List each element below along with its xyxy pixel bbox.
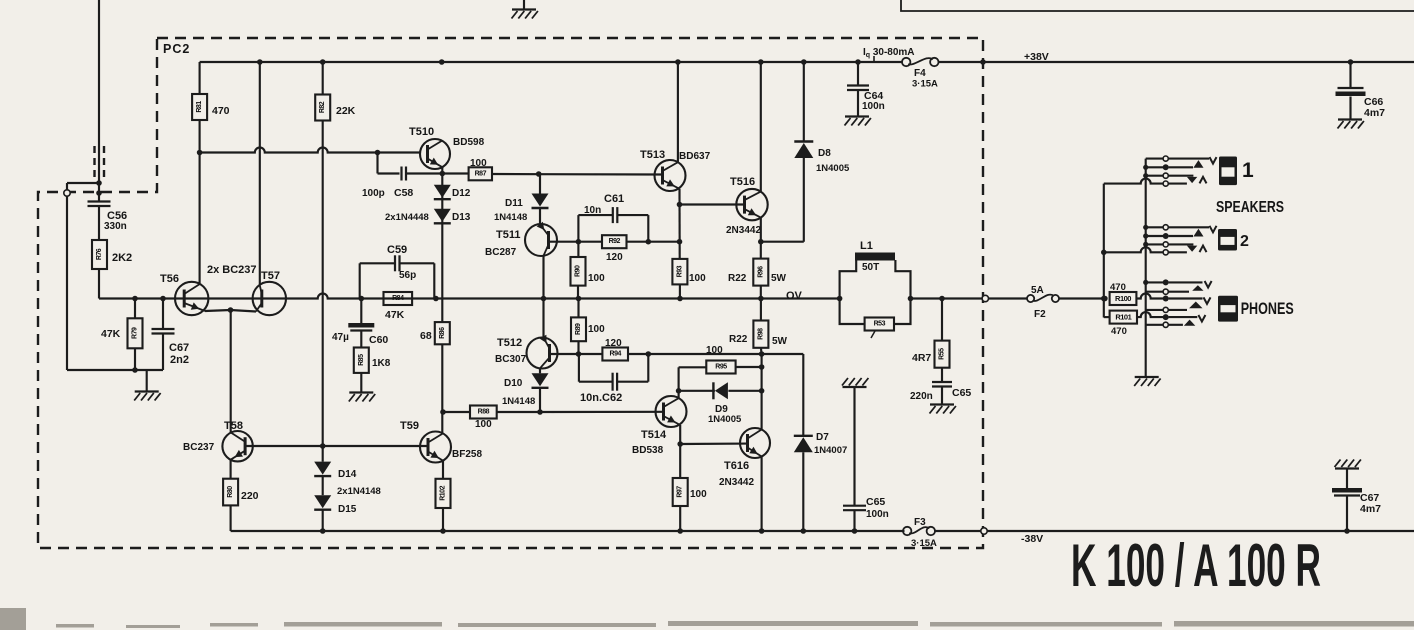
wire ground stem input (146, 370, 148, 391)
node rail T616 (759, 528, 765, 534)
node rail R102 (440, 528, 446, 534)
svg-text:10n.C62: 10n.C62 (580, 392, 622, 404)
node output T616 collector (759, 351, 765, 357)
capacitor C62 10n (611, 373, 613, 391)
node 47K tap (132, 296, 138, 302)
speakers jack 1 (1146, 158, 1163, 160)
wire T516 emitter (760, 218, 762, 259)
wire R53 left path (840, 299, 865, 325)
ground C67b inverted (1335, 467, 1359, 469)
svg-text:100: 100 (689, 273, 706, 284)
svg-text:4m7: 4m7 (1364, 107, 1385, 119)
svg-text:R22: R22 (729, 334, 748, 345)
node D11 tap (536, 171, 542, 177)
svg-text:R100: R100 (1115, 294, 1131, 303)
svg-text:C65: C65 (866, 496, 885, 508)
svg-text:R84: R84 (392, 295, 404, 302)
svg-text:68: 68 (420, 330, 432, 342)
wire C56 to R76 (98, 206, 100, 240)
scan edge band (0, 608, 26, 630)
node D10 R88 (537, 409, 543, 415)
svg-text:4R7: 4R7 (912, 352, 931, 364)
svg-text:100n: 100n (862, 101, 885, 112)
diode D13 (434, 209, 451, 222)
node T59 collector R88 (440, 409, 446, 415)
svg-text:R96: R96 (757, 266, 764, 278)
svg-text:1: 1 (1242, 159, 1254, 182)
node emitter R87 (440, 171, 446, 177)
wire T511 emitter to 0V (542, 256, 544, 299)
node C60 tap (359, 296, 365, 302)
resistor R102 (436, 479, 451, 508)
wire R22b bottom (760, 348, 763, 354)
node C58 tap (375, 150, 381, 156)
transistor T513 (655, 160, 686, 191)
node T58 T59 base chain (320, 443, 326, 449)
wire T57 collector (259, 62, 261, 285)
phones jack rowA (1143, 280, 1148, 285)
capacitor C66 4m7 (1338, 87, 1364, 89)
fuse F4 (902, 58, 910, 66)
svg-text:C61: C61 (604, 193, 624, 205)
node rail R97 (677, 528, 683, 534)
wire T58-T59 base line (245, 445, 428, 447)
svg-text:2: 2 (1240, 233, 1249, 250)
wire R53 right path (894, 299, 911, 325)
shield dashed left (93, 146, 95, 179)
svg-text:T59: T59 (400, 420, 419, 432)
svg-text:100: 100 (690, 489, 707, 500)
svg-text:R22: R22 (728, 273, 747, 284)
ground C60 R85 (349, 391, 373, 393)
wire 47K to bottom (134, 348, 136, 370)
svg-text:2x1N4148: 2x1N4148 (337, 486, 381, 497)
resistor R76 2K2 (92, 240, 107, 269)
wire T512 base line (550, 353, 603, 355)
ground input network (135, 390, 159, 392)
wire R95 to collector node (736, 366, 762, 368)
capacitor C67b 4m7 (1332, 488, 1362, 493)
wire D9 line right (728, 390, 761, 392)
svg-text:R94: R94 (610, 351, 622, 358)
wire R95 line (679, 366, 707, 368)
node L1 left (837, 296, 843, 302)
node hot 0V (1101, 296, 1107, 302)
phones jack rowF (1146, 324, 1163, 326)
diode D7 (794, 437, 813, 452)
node rail C66 (1348, 59, 1354, 65)
wire C67b to rail (1346, 496, 1348, 532)
wire R76 to base line (98, 269, 100, 299)
wire 47K branch (134, 299, 136, 319)
wire C67b stem (1346, 469, 1348, 490)
node D9 left (676, 388, 682, 394)
capacitor C58 100p (400, 167, 402, 181)
svg-text:47µ: 47µ (332, 332, 349, 343)
wire R81 to T56 collector (199, 120, 201, 283)
node T511-T512 emitters (541, 296, 547, 302)
svg-text:C59: C59 (387, 244, 407, 256)
svg-text:120: 120 (605, 338, 622, 349)
svg-text:BD637: BD637 (679, 151, 711, 162)
wire R86 to T59 (441, 344, 443, 433)
node rail T57 (257, 59, 263, 65)
wire C58 branch down (376, 153, 378, 174)
svg-text:220: 220 (241, 490, 259, 502)
svg-text:T516: T516 (730, 176, 755, 188)
svg-text:BD538: BD538 (632, 445, 664, 456)
svg-text:T57: T57 (261, 270, 280, 282)
wire D15 to rail (322, 510, 324, 531)
wire C59 top left (360, 262, 395, 264)
wire C62 bottom left (579, 381, 613, 383)
wire input bottom (67, 369, 163, 371)
wire C65 to ground (941, 387, 943, 405)
resistor R93 100 (672, 259, 687, 285)
wire R22 to 0V (760, 286, 762, 299)
wire -38V rail left (231, 530, 905, 532)
svg-text:F2: F2 (1034, 309, 1046, 320)
resistor R55 4R7 (935, 341, 950, 368)
svg-text:2n2: 2n2 (170, 354, 189, 366)
node R93 bottom (677, 296, 683, 302)
phones connector icon (1218, 296, 1238, 322)
svg-text:47K: 47K (101, 328, 121, 340)
svg-text:D15: D15 (338, 504, 357, 515)
svg-text:R92: R92 (609, 238, 621, 245)
wire C67 branch (162, 299, 164, 330)
svg-text:F3: F3 (914, 517, 926, 528)
transistor T58 (222, 431, 252, 461)
wire R90 bottom (577, 286, 579, 299)
wire R89 top (577, 299, 579, 318)
wire T511 base line (549, 241, 603, 243)
wire T58 emitter (230, 460, 232, 479)
wire C61 right down (647, 215, 649, 242)
svg-text:R102: R102 (440, 485, 447, 500)
transistor T514 (656, 396, 687, 427)
inductor L1 (855, 253, 895, 261)
capacitor C64 100n (847, 84, 869, 86)
svg-text:L1: L1 (860, 240, 873, 252)
ground C65b inverted (843, 386, 867, 388)
node hot speaker2 (1101, 250, 1107, 256)
wire T514 collector (678, 367, 680, 398)
svg-text:OV: OV (786, 290, 803, 302)
wire D7 to rail (802, 452, 804, 531)
svg-text:R93: R93 (676, 265, 683, 277)
node T513 emitter line (677, 239, 683, 245)
wire D14 D15 (322, 477, 324, 496)
speakers jack 2 (1143, 225, 1148, 230)
svg-text:Iq 30-80mA: Iq 30-80mA (863, 47, 915, 59)
node R22 output (758, 296, 764, 302)
transistor T56 (175, 282, 208, 315)
svg-text:R81: R81 (196, 101, 203, 113)
node 47K bottom (132, 367, 138, 373)
wire emitter to R87 (442, 172, 468, 174)
wire 0V to F2 (989, 297, 1028, 299)
wire shield tap (67, 182, 99, 184)
resistor R79 47K (128, 318, 143, 348)
node rail D8 (801, 59, 807, 65)
wire 22K down chain (322, 121, 324, 462)
ground phones (1135, 376, 1159, 378)
transistor T57 (253, 282, 286, 315)
svg-text:T514: T514 (641, 429, 667, 441)
node diff emitters (228, 307, 234, 313)
wire R94 to output node (628, 353, 803, 355)
svg-text:K 100 / A 100 R: K 100 / A 100 R (1071, 532, 1321, 599)
wire C59 right down (433, 263, 435, 298)
wire C62 bottom right (617, 381, 648, 383)
wire C66 to ground (1349, 97, 1351, 120)
svg-text:R87: R87 (475, 170, 487, 177)
resistor R88 100 (470, 406, 497, 419)
wire L1 down path (895, 260, 910, 299)
fuse F2 (1027, 295, 1034, 302)
resistor R96 R22 5W (753, 259, 768, 286)
wire C67 to bottom (162, 334, 164, 371)
wire D10 to R88 line (539, 388, 541, 412)
svg-text:100n: 100n (866, 509, 889, 520)
svg-text:220n: 220n (910, 391, 933, 402)
node C67 tap (160, 296, 166, 302)
svg-text:2N3442: 2N3442 (719, 477, 754, 488)
wire +38V rail right (938, 61, 1414, 63)
wire F2 to jacks (1059, 297, 1105, 299)
svg-text:1K8: 1K8 (372, 358, 391, 369)
svg-text:470: 470 (212, 105, 230, 117)
wire C60 to R85 (360, 331, 362, 348)
svg-text:4m7: 4m7 (1360, 503, 1381, 515)
wire C62 right up (647, 354, 649, 382)
svg-text:1N4005: 1N4005 (816, 163, 850, 174)
node R95 right (759, 364, 765, 370)
node C59 right (433, 296, 439, 302)
svg-text:D7: D7 (816, 432, 829, 443)
transistor T511 (525, 224, 557, 256)
wire T514 emitter (679, 425, 681, 478)
wire T513 emitter chain (678, 189, 680, 259)
svg-text:D11: D11 (505, 198, 523, 209)
svg-text:R89: R89 (575, 323, 582, 335)
svg-text:+38V: +38V (1024, 51, 1049, 63)
svg-text:2N3442: 2N3442 (726, 225, 761, 236)
svg-text:T616: T616 (724, 460, 749, 472)
node T616 base tap (677, 441, 683, 447)
wire C66 stem (1349, 62, 1351, 88)
wire +38V rail left (200, 61, 903, 63)
svg-text:R53: R53 (874, 321, 886, 328)
ground C66 (1338, 118, 1362, 120)
svg-text:330n: 330n (104, 221, 127, 232)
transistor T616 (740, 428, 770, 458)
wire input vertical (98, 0, 100, 202)
wire R89 bottom (577, 341, 579, 354)
wire emitters to T58 (230, 310, 232, 433)
svg-text:T58: T58 (224, 420, 243, 432)
wire C61 top left (578, 214, 612, 216)
node input on dashed (96, 190, 102, 196)
svg-text:100p: 100p (362, 188, 385, 199)
diode D8 (794, 143, 813, 158)
wire T512 emitter (539, 368, 541, 373)
svg-text:50T: 50T (862, 262, 879, 273)
svg-text:C58: C58 (394, 187, 413, 199)
wire bias line (200, 148, 421, 153)
node D9 right (759, 388, 765, 394)
svg-text:5W: 5W (771, 273, 787, 284)
wire R88 to D10 node (497, 411, 540, 413)
svg-text:C65: C65 (952, 387, 971, 399)
resistor R84 47K (384, 292, 413, 305)
wire R93 to 0V (679, 284, 681, 298)
node R81 bias line (197, 150, 203, 156)
connector 0V dashed edge (982, 295, 988, 301)
wire R87 to T513 base (492, 173, 662, 176)
capacitor C65 220n (932, 381, 952, 383)
diode D9 (715, 382, 728, 399)
svg-text:R86: R86 (439, 327, 446, 339)
wire C64 to ground (857, 91, 859, 117)
svg-text:D13: D13 (452, 212, 471, 223)
wire jack sleeve vertical (1145, 159, 1147, 377)
svg-text:470: 470 (1111, 326, 1127, 337)
wire T516 base line (680, 203, 745, 205)
connector rail dashed edge (981, 528, 987, 534)
svg-text:R82: R82 (319, 101, 326, 113)
wire R88 line to T514 base (540, 411, 663, 413)
svg-text:PC2: PC2 (163, 42, 190, 56)
wire 0V feedback line (99, 294, 840, 299)
wire C59 top right (400, 262, 435, 264)
svg-text:R88: R88 (478, 409, 490, 416)
node zobel tap (939, 296, 945, 302)
phones jack rowD (1146, 309, 1163, 311)
svg-text:22K: 22K (336, 105, 356, 117)
wire D11 to T511 (539, 208, 541, 225)
resistor R92 120 (602, 235, 627, 248)
wire C62 left down (578, 354, 580, 382)
svg-text:BC287: BC287 (485, 247, 517, 258)
svg-text:100: 100 (706, 345, 723, 356)
wire R90 top (577, 242, 579, 257)
node rail D7 (801, 528, 807, 534)
node rail dashed edge (980, 59, 986, 65)
diode D14 (314, 462, 331, 475)
ground C64 (845, 115, 869, 117)
wire zobel stem (941, 299, 943, 341)
svg-text:100: 100 (588, 273, 605, 284)
shield dashed right (103, 146, 105, 179)
svg-text:T512: T512 (497, 337, 522, 349)
resistor R87 100 (469, 167, 492, 180)
wire R86 node to R88 (443, 411, 470, 413)
wire T59 emitter (442, 461, 444, 479)
svg-text:1N4005: 1N4005 (708, 414, 742, 425)
capacitor C56 (88, 200, 111, 202)
fuse F3 (903, 527, 911, 535)
phones jack rowB (1146, 291, 1163, 293)
resistor R82 22K (315, 95, 330, 121)
phones jack rowE from R101 (1137, 312, 1163, 317)
svg-text:100: 100 (475, 419, 492, 430)
wire C65b to rail (853, 510, 855, 531)
svg-text:R90: R90 (575, 265, 582, 277)
svg-text:C67: C67 (169, 342, 189, 354)
R53 tick (871, 331, 875, 338)
svg-text:10n: 10n (584, 205, 601, 216)
node D15 rail (320, 528, 326, 534)
speakers connector icon 2 (1218, 229, 1237, 251)
node rail C65b (852, 528, 858, 534)
node C61 left (576, 239, 582, 245)
svg-text:100: 100 (470, 158, 487, 169)
PC2 board dashed outline (38, 38, 983, 548)
speakers connector icon 1 (1219, 157, 1237, 186)
transistor T512 (527, 338, 558, 369)
svg-text:2K2: 2K2 (112, 252, 132, 264)
resistor R80 220 (223, 479, 238, 506)
svg-text:R79: R79 (132, 327, 139, 339)
diode D10 (532, 373, 549, 386)
node rail 22K (320, 59, 326, 65)
transistor T516 (736, 189, 767, 220)
wire L1 up path (840, 260, 857, 299)
diode D12 (434, 185, 451, 198)
svg-text:1N4148: 1N4148 (502, 396, 535, 407)
node rail T510 (439, 59, 445, 65)
diode D11 (532, 194, 549, 207)
resistor R86 68 (435, 322, 450, 344)
node input-shield (96, 180, 102, 186)
phones jack rowC from R100 (1136, 294, 1163, 299)
svg-text:1N4148: 1N4148 (494, 212, 527, 223)
svg-text:3·15A: 3·15A (912, 79, 938, 90)
resistor R101 (1110, 311, 1137, 324)
wire T57 emitter join (231, 310, 257, 312)
wire R97 to rail (679, 506, 681, 531)
node T516 base tap (677, 202, 683, 208)
svg-text:D14: D14 (338, 469, 357, 480)
resistor R98 R22 5W (753, 321, 768, 348)
node R89 T512 base (576, 351, 582, 357)
transistor T510 (420, 139, 450, 169)
ground top-center (523, 0, 525, 9)
svg-text:BC237: BC237 (183, 442, 215, 453)
resistor R97 100 (673, 478, 688, 506)
svg-text:47K: 47K (385, 309, 405, 321)
svg-text:C60: C60 (369, 334, 388, 346)
resistor R94 120 (602, 348, 628, 361)
diode D15 (314, 495, 331, 508)
resistor R53 (865, 318, 894, 331)
svg-text:D8: D8 (818, 148, 831, 159)
svg-text:BC307: BC307 (495, 354, 527, 365)
svg-text:R97: R97 (677, 486, 684, 498)
svg-text:SPEAKERS: SPEAKERS (1216, 199, 1284, 216)
wire R92 to T513 emitter (627, 241, 680, 243)
wire -38V rail right (935, 530, 1414, 532)
wire 0V to zobel (911, 297, 986, 299)
resistor R90 100 (571, 257, 586, 286)
wire T56 emitter join (205, 310, 231, 311)
svg-text:R101: R101 (1115, 313, 1131, 322)
wire T616 collector (761, 354, 763, 430)
svg-text:R98: R98 (757, 328, 764, 340)
node jack branch (1102, 296, 1108, 302)
